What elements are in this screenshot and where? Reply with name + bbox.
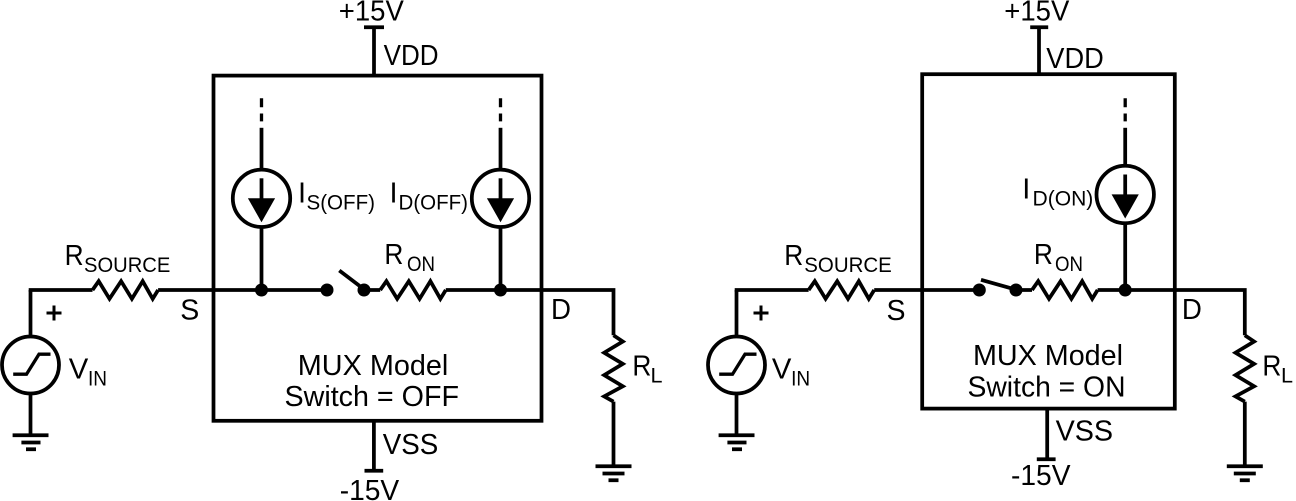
svg-text:IN: IN (88, 368, 107, 391)
svg-text:I: I (298, 178, 306, 210)
current source I_S(OFF) circle (233, 170, 290, 227)
wire dash to I_D(ON) circle (1123, 128, 1127, 166)
label R_SOURCE (right) (784, 240, 892, 277)
svg-text:R: R (784, 240, 803, 272)
svg-text:Switch = ON: Switch = ON (968, 372, 1126, 404)
VSS terminal bar (left) (365, 469, 384, 473)
resistor R_SOURCE zigzag (right) (809, 281, 875, 299)
plus sign of V_IN (right) (754, 306, 769, 321)
label I_D(ON) (1022, 173, 1093, 210)
svg-text:S: S (887, 295, 906, 327)
wire VDD (right) (1037, 27, 1041, 75)
ground under R_L (right) (1227, 466, 1263, 480)
label V_IN (right) (772, 354, 810, 391)
dashed line above I_S(OFF) (260, 98, 263, 121)
svg-text:VDD: VDD (1046, 43, 1104, 75)
svg-text:MUX Model: MUX Model (298, 350, 449, 382)
junction dot D-side (494, 284, 507, 297)
wire R_SOURCE to switch (right) (874, 288, 979, 292)
wire V_IN bottom to ground (29, 394, 33, 436)
svg-text:R: R (1034, 239, 1053, 271)
MUX model box (left) (214, 76, 542, 421)
VDD terminal bar (right) (1030, 25, 1048, 29)
wire corner to R_SOURCE (29, 288, 93, 292)
VSS wire (right) (1045, 409, 1049, 460)
arrow inside I_D(OFF) (487, 178, 514, 222)
wire corner to R_SOURCE (right) (735, 288, 809, 292)
svg-text:V: V (69, 354, 89, 386)
svg-text:R: R (65, 240, 84, 272)
wire VDD (left) (372, 27, 376, 77)
wire R_L to ground (612, 402, 616, 467)
svg-text:L: L (1281, 364, 1293, 387)
VSS wire (left) (372, 421, 376, 471)
svg-text:D: D (551, 294, 571, 326)
ground under V_IN (13, 435, 49, 449)
svg-text:VSS: VSS (1056, 416, 1114, 448)
svg-text:R: R (632, 351, 651, 383)
svg-text:ON: ON (407, 253, 435, 276)
wire dash to I_S(OFF) circle (260, 128, 264, 170)
svg-text:-15V: -15V (1011, 460, 1071, 492)
VDD terminal bar (left) (364, 25, 384, 29)
svg-text:SOURCE: SOURCE (84, 254, 170, 277)
wire dash to I_D(OFF) circle (499, 128, 503, 170)
wire R_SOURCE to switch left dot (158, 288, 327, 292)
wire D node to R_L corner (542, 290, 614, 335)
wire D node to R_L corner (right) (1175, 290, 1245, 335)
svg-text:S(OFF): S(OFF) (307, 192, 376, 215)
switch lever closed (right circuit) (981, 280, 1013, 289)
plus sign of V_IN (47, 306, 62, 321)
arrow inside I_D(ON) (1112, 175, 1139, 219)
svg-text:MUX Model: MUX Model (973, 340, 1123, 372)
label R_SOURCE (65, 240, 171, 277)
label R_L (right) (1262, 351, 1293, 388)
wire R_L to ground (right) (1243, 402, 1247, 467)
svg-text:S: S (180, 295, 199, 327)
resistor R_ON zigzag (left) (380, 281, 446, 299)
svg-text:D: D (1182, 294, 1202, 326)
label V_IN (left) (69, 354, 107, 391)
dashed line above I_D(ON) (1124, 98, 1127, 121)
wire V_IN top to corner (29, 290, 33, 337)
svg-text:IN: IN (791, 368, 810, 391)
ground under V_IN (right) (719, 435, 755, 449)
svg-text:L: L (651, 364, 663, 387)
switch left contact dot (left circuit) (321, 284, 334, 297)
V_IN waveform symbol (13, 354, 50, 374)
svg-text:SOURCE: SOURCE (804, 254, 892, 277)
svg-text:ON: ON (1055, 253, 1083, 276)
wire I_D(ON) to node (1123, 223, 1127, 290)
svg-text:I: I (390, 178, 398, 210)
svg-text:-15V: -15V (340, 475, 400, 501)
arrow inside I_S(OFF) (248, 178, 275, 222)
current source I_D(ON) circle (1097, 166, 1154, 223)
junction dot D-node (right) (1119, 284, 1132, 297)
svg-text:+15V: +15V (1004, 0, 1070, 28)
wire V_IN bottom to ground (right) (735, 394, 739, 436)
svg-text:+15V: +15V (339, 0, 405, 28)
wire R_ON to D node (446, 288, 542, 292)
label R_ON (left) (384, 239, 435, 276)
wire switch to R_ON (364, 288, 380, 292)
label I_S(OFF) (298, 178, 375, 215)
svg-text:D(ON): D(ON) (1033, 187, 1094, 210)
current source I_D(OFF) circle (472, 170, 529, 227)
wire I_D(OFF) to node (499, 227, 503, 290)
svg-text:V: V (772, 354, 792, 386)
ground under R_L (left) (596, 466, 632, 480)
svg-text:R: R (1262, 351, 1281, 383)
wire switch to R_ON (right) (1016, 288, 1032, 292)
wire V_IN top to corner (right) (735, 290, 739, 337)
svg-text:VSS: VSS (383, 429, 439, 461)
switch left contact dot (right circuit) (973, 284, 986, 297)
wire R_ON to D node (right) (1098, 288, 1175, 292)
svg-text:D(OFF): D(OFF) (399, 192, 469, 215)
dashed line above I_D(OFF) (499, 98, 502, 121)
resistor R_SOURCE zigzag (93, 281, 159, 299)
label R_ON (right) (1034, 239, 1083, 276)
resistor R_ON zigzag (right) (1032, 281, 1098, 299)
svg-text:R: R (384, 239, 403, 271)
MUX model box (right) (922, 74, 1175, 408)
voltage source V_IN (right) (708, 337, 765, 394)
svg-text:I: I (1022, 173, 1030, 205)
switch lever open (left circuit) (339, 271, 363, 289)
label I_D(OFF) (390, 178, 469, 215)
wire I_S(OFF) to node (260, 227, 264, 290)
resistor R_L zigzag (right) (1236, 335, 1255, 401)
switch right contact dot (right circuit) (1010, 284, 1023, 297)
svg-text:VDD: VDD (384, 40, 439, 72)
junction dot S-side (255, 284, 268, 297)
V_IN waveform symbol (right) (719, 354, 756, 374)
label R_L (left) (632, 351, 662, 388)
VSS terminal bar (right) (1037, 457, 1056, 461)
voltage source V_IN (2, 337, 59, 394)
svg-text:Switch = OFF: Switch = OFF (285, 381, 460, 413)
resistor R_L zigzag (left) (604, 335, 623, 401)
switch right contact dot (left circuit) (358, 284, 371, 297)
